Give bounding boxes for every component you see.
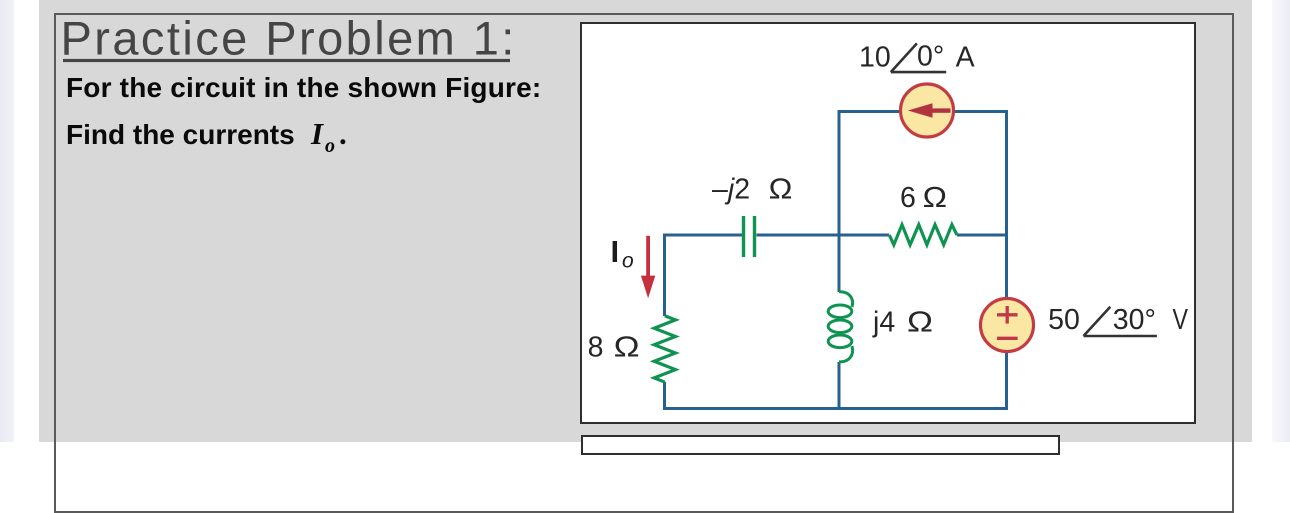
wire: left vertical upper (663, 234, 666, 317)
svg-text:o: o (325, 135, 335, 157)
svg-text:–j2: –j2 (712, 174, 750, 206)
voltage source plus (997, 306, 1018, 338)
title underline (63, 59, 510, 62)
svg-text:Ω: Ω (769, 174, 793, 206)
wire: right vertical upper (1005, 110, 1008, 298)
svg-text:j4: j4 (872, 307, 895, 339)
second figure box (cut at bottom) (581, 435, 1060, 455)
svg-text:Find the currents: Find the currents (66, 119, 295, 150)
wire: bottom horizontal (663, 407, 1008, 410)
wire: middle horizontal left of capacitor (665, 234, 743, 237)
inductor j4 (828, 292, 852, 362)
left lavender strip (0, 0, 14, 442)
svg-text:8: 8 (588, 332, 604, 364)
svg-text:V: V (1173, 304, 1189, 336)
current source arrow (908, 103, 951, 118)
label 10 angle 0 A (859, 40, 975, 73)
current source I=10 (901, 84, 954, 137)
svg-text:Practice Problem 1:: Practice Problem 1: (61, 11, 517, 64)
svg-text:.: . (339, 116, 347, 151)
capacitor -j2 (744, 216, 755, 257)
svg-text:Ω: Ω (614, 332, 640, 364)
wire: left vertical lower (663, 382, 666, 410)
voltage source minus (997, 337, 1018, 340)
svg-text:A: A (956, 41, 975, 73)
wire: center vertical lower (838, 362, 841, 410)
svg-text:6: 6 (900, 182, 916, 214)
wire: middle horizontal capacitor to resistor (757, 234, 890, 237)
wire: top horizontal (839, 110, 1007, 113)
right lavender strip (1272, 0, 1290, 442)
Io arrow (641, 236, 655, 298)
svg-text:Ω: Ω (923, 182, 947, 214)
svg-text:I: I (611, 234, 620, 269)
voltage source 50 (981, 299, 1034, 352)
svg-text:I: I (310, 116, 324, 151)
wire: center vertical upper (838, 110, 841, 292)
svg-text:For the circuit in the shown F: For the circuit in the shown Figure: (66, 72, 541, 103)
wire: right vertical lower (1005, 352, 1008, 410)
svg-text:Ω: Ω (907, 307, 933, 339)
label 50 angle 30 V (1048, 304, 1188, 336)
svg-text:30°: 30° (1113, 304, 1156, 336)
svg-text:10: 10 (859, 41, 891, 73)
svg-text:o: o (622, 250, 634, 273)
figure white box (580, 22, 1196, 424)
svg-text:50: 50 (1048, 304, 1080, 336)
svg-text:0°: 0° (917, 40, 944, 72)
resistor 8 ohm (654, 316, 675, 382)
resistor 6 ohm (889, 225, 957, 245)
wire: middle horizontal right of resistor (957, 234, 1007, 237)
